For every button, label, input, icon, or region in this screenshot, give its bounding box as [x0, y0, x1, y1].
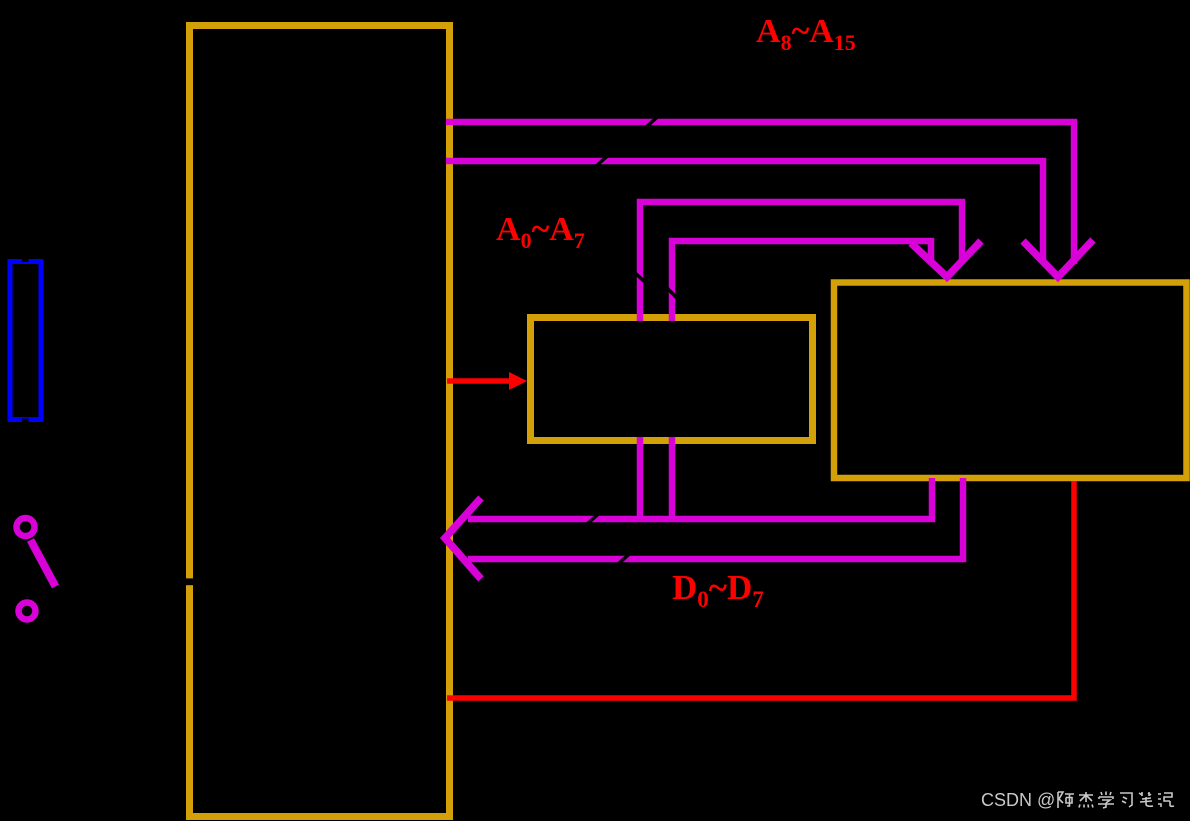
svg-text:D0~D7: D0~D7	[672, 568, 764, 612]
bus slash on data line 2	[617, 550, 634, 565]
watermark chinese glyphs	[1058, 792, 1174, 809]
wire data bus D0-D7 line 2	[468, 478, 963, 559]
switch S1 lever	[31, 540, 56, 587]
arrowhead into memory left	[911, 241, 981, 277]
pin tick on CPU left edge	[183, 578, 196, 585]
wire decoder bottom to data bus left	[637, 437, 644, 521]
switch S1 circle bottom	[19, 603, 36, 620]
battery notch bottom	[22, 419, 29, 422]
bus slash on line 1	[645, 113, 662, 128]
glyph 习	[1120, 793, 1132, 807]
glyph 笔	[1139, 792, 1153, 806]
bus slash on line 4	[666, 287, 678, 299]
bus slash on line 2	[595, 152, 612, 167]
bus slash on data line 1	[586, 510, 603, 525]
svg-text:CSDN @: CSDN @	[981, 790, 1055, 810]
bus slash on line 3	[634, 272, 646, 283]
wire data bus D0-D7 line 1	[468, 478, 932, 519]
wire red control CPU to decoder	[447, 378, 510, 384]
switch S1 circle top	[17, 518, 35, 536]
decoder box U2	[531, 318, 813, 441]
arrowhead into CPU (data bus)	[445, 498, 481, 579]
wire address bus A8-A15 line 1	[446, 122, 1074, 264]
battery notch top	[22, 259, 29, 262]
wire address bus A8-A15 line 2	[446, 161, 1043, 260]
svg-text:A8~A15: A8~A15	[756, 13, 856, 55]
glyph 阿	[1058, 792, 1074, 808]
wire address bus A0-A7 line 4	[672, 241, 931, 321]
battery rectangle B1	[10, 262, 41, 420]
glyph 杰	[1079, 792, 1093, 808]
arrowhead red into decoder	[509, 372, 527, 390]
wire decoder bottom to data bus right	[669, 437, 676, 521]
memory box U3	[834, 283, 1187, 479]
svg-text:A0~A7: A0~A7	[496, 211, 585, 253]
glyph 学	[1098, 792, 1114, 809]
wire address bus A0-A7 line 3	[640, 202, 962, 321]
wire red control CPU to memory	[447, 481, 1074, 698]
CPU box U1	[190, 26, 450, 817]
arrowhead into memory right	[1023, 240, 1093, 277]
glyph 记	[1158, 793, 1174, 807]
